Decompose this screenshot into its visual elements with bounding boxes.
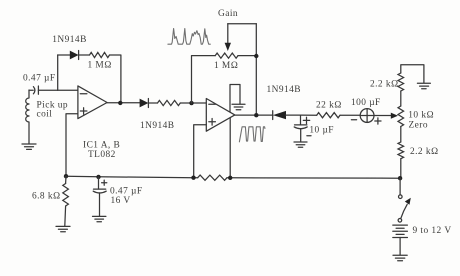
ground top right bbox=[417, 83, 430, 89]
op-amp U1a bbox=[78, 86, 107, 119]
ground under C2 bbox=[294, 142, 307, 147]
wire op2 output bbox=[235, 114, 273, 116]
ground under C4 bbox=[93, 216, 106, 221]
wire to op2 bbox=[180, 102, 206, 104]
svg-text:2.2 kΩ: 2.2 kΩ bbox=[410, 147, 439, 157]
feedback loop left vertical wire bbox=[57, 55, 59, 90]
node rail1 bbox=[64, 174, 68, 178]
resistor R4 rail bbox=[198, 175, 227, 180]
battery B1 9-12V bbox=[393, 225, 408, 237]
wire top to ground bbox=[401, 65, 424, 83]
svg-text:1 MΩ: 1 MΩ bbox=[214, 61, 238, 71]
svg-text:1 MΩ: 1 MΩ bbox=[88, 61, 112, 71]
wire pot right vertical bbox=[255, 24, 257, 116]
ground bottom right bbox=[393, 255, 407, 261]
node op2 out bbox=[254, 113, 258, 117]
wire op1 + input bbox=[66, 114, 78, 176]
svg-text:100 µF: 100 µF bbox=[351, 98, 381, 108]
wire to switch bbox=[399, 178, 401, 195]
wire loop right vertical bbox=[110, 55, 121, 103]
svg-text:TL082: TL082 bbox=[88, 150, 116, 160]
potentiometer R7 10k Zero bbox=[398, 106, 404, 127]
svg-text:16 V: 16 V bbox=[111, 196, 131, 206]
rail wire left bbox=[66, 176, 194, 178]
wire op2 + input bbox=[194, 125, 207, 178]
potentiometer R3 1 Mohm bbox=[215, 53, 238, 58]
wire loop top bbox=[58, 54, 70, 56]
wire op2 feedback vertical bbox=[229, 116, 231, 178]
svg-text:Gain: Gain bbox=[218, 9, 238, 19]
wire op1 output bbox=[107, 102, 140, 104]
resistor R8 2.2k bottom bbox=[398, 142, 404, 159]
resistor R5 22k bbox=[317, 113, 340, 118]
capacitor C1 0.47uF bbox=[29, 89, 33, 91]
svg-text:1N914B: 1N914B bbox=[52, 35, 86, 45]
node pot left bbox=[189, 101, 193, 105]
svg-text:0.47 µF: 0.47 µF bbox=[23, 74, 56, 84]
ground under 6.8k bbox=[56, 226, 70, 231]
waveform output spikes bbox=[239, 127, 265, 142]
ground under coil bbox=[22, 144, 36, 149]
node rail4 bbox=[228, 176, 232, 180]
capacitor C4 0.47uF 16V bbox=[98, 177, 100, 189]
switch S1 bbox=[399, 195, 403, 199]
wiper arm Gain bbox=[227, 24, 229, 44]
wire op2 V+ to ground bbox=[230, 85, 240, 113]
diode D1 1N914B bbox=[70, 51, 79, 60]
diode D3 1N914B bbox=[272, 111, 274, 120]
svg-text:1N914B: 1N914B bbox=[267, 85, 301, 95]
resistor R1 1 Mohm bbox=[90, 52, 110, 57]
node op1 out bbox=[118, 101, 122, 105]
capacitor C2 10uF bbox=[300, 115, 302, 125]
node rail2 bbox=[96, 175, 100, 179]
svg-text:10 µF: 10 µF bbox=[309, 125, 334, 135]
resistor R2 bbox=[158, 100, 181, 105]
pickup coil L1 bbox=[26, 90, 29, 144]
op-amp U1b bbox=[206, 99, 235, 132]
resistor R6 2.2k top bbox=[398, 73, 404, 91]
svg-text:0.47 µF: 0.47 µF bbox=[110, 187, 143, 197]
ground above op2 bbox=[232, 104, 245, 109]
svg-text:Zero: Zero bbox=[409, 121, 429, 131]
node rail3 bbox=[191, 176, 195, 180]
wire battery to ground bbox=[399, 238, 401, 255]
diode D2 1N914B bbox=[140, 99, 149, 108]
svg-text:10 kΩ: 10 kΩ bbox=[408, 111, 434, 121]
svg-text:2.2 kΩ: 2.2 kΩ bbox=[370, 80, 399, 90]
node rail5 bbox=[398, 176, 402, 180]
svg-text:IC1 A, B: IC1 A, B bbox=[83, 141, 120, 151]
svg-text:9 to 12 V: 9 to 12 V bbox=[413, 226, 452, 236]
svg-text:22 kΩ: 22 kΩ bbox=[316, 101, 342, 111]
rail wire right bbox=[230, 177, 400, 179]
resistor R9 6.8k bbox=[63, 184, 69, 207]
svg-text:6.8 kΩ: 6.8 kΩ bbox=[32, 192, 61, 202]
svg-text:coil: coil bbox=[37, 110, 53, 120]
wire pot left vertical bbox=[192, 56, 216, 103]
capacitor C3 100uF crossed circle bbox=[340, 114, 360, 116]
waveform input spikes bbox=[168, 29, 210, 45]
svg-text:1N914B: 1N914B bbox=[140, 121, 174, 131]
node pot right top bbox=[254, 54, 258, 58]
